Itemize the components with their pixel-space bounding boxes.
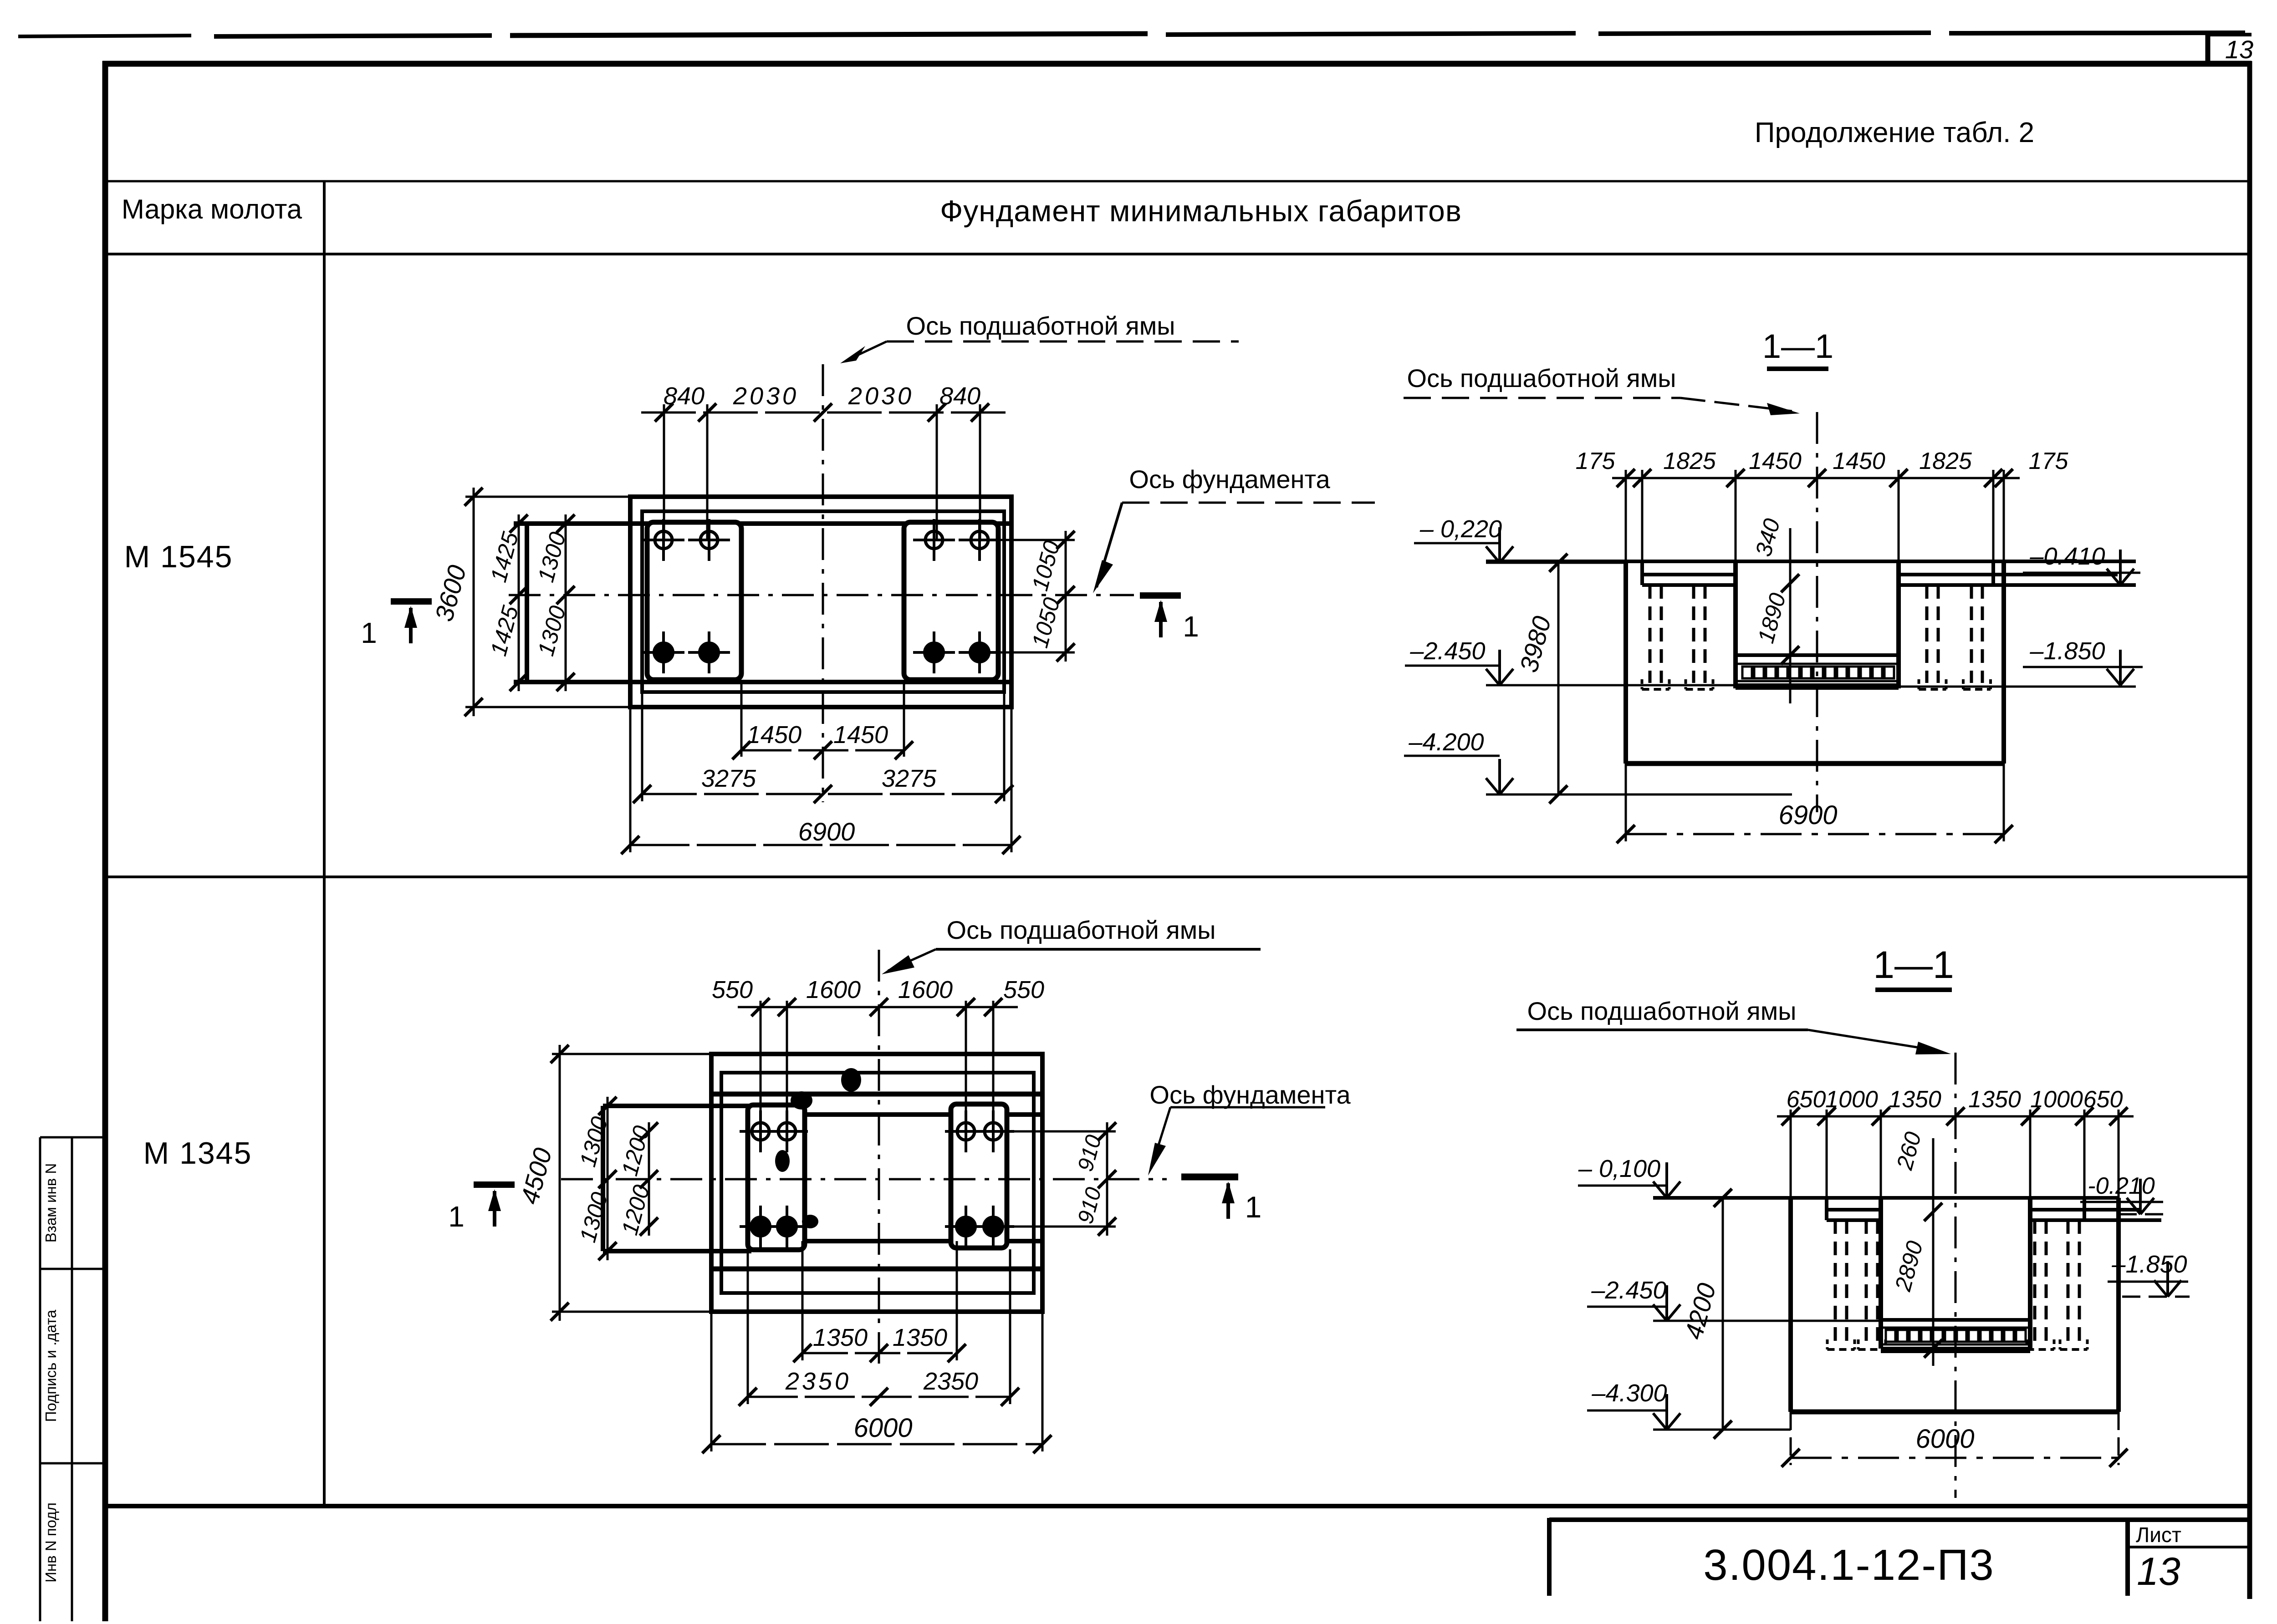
- upper plan pit top line: [514, 521, 1011, 526]
- extension lines 910 (lower plan): [993, 1131, 1116, 1227]
- upper plan inner outline: [642, 511, 1004, 692]
- svg-text:Ось подшаботной ямы: Ось подшаботной ямы: [947, 916, 1216, 944]
- pit floor joists (upper section): [1742, 667, 1894, 678]
- svg-text:–0.410: –0.410: [2029, 543, 2105, 570]
- svg-text:6900: 6900: [798, 817, 855, 846]
- bolt A4: [688, 631, 730, 673]
- svg-text:1600: 1600: [806, 976, 861, 1003]
- extension lines 4500 (lower plan): [552, 1054, 711, 1312]
- dim line 1425/1425: [510, 514, 528, 691]
- section mark 1 (upper plan left): [361, 601, 432, 649]
- svg-text:– 0,100: – 0,100: [1578, 1155, 1660, 1182]
- svg-text:1000: 1000: [2030, 1086, 2083, 1113]
- lower plan notch left edge: [601, 1106, 605, 1251]
- Лист label: [2136, 1523, 2181, 1547]
- header bottom line: [105, 253, 2249, 255]
- dim line 3275/3275: [633, 785, 1013, 803]
- row divider: [105, 876, 2249, 878]
- svg-text:1600: 1600: [898, 976, 953, 1003]
- pit floor joists (lower section): [1886, 1330, 2026, 1342]
- svg-text:1350: 1350: [893, 1324, 947, 1351]
- bolt D4: [972, 1206, 1014, 1247]
- dim text 1450 (right): [833, 721, 888, 748]
- title block left edge: [1547, 1518, 1552, 1596]
- ink blot 2: [775, 1150, 790, 1172]
- upper plan vertical axis Ось подшаботной ямы: [822, 364, 824, 802]
- pile group E (lower section): [1828, 1220, 1855, 1349]
- lower plan anchor plate left: [748, 1105, 805, 1250]
- upper plan pit bottom line: [514, 680, 1011, 684]
- upper plan anchor plate left: [647, 522, 741, 680]
- dim text 1350 (right): [893, 1324, 947, 1351]
- pile group B (upper section): [1686, 585, 1713, 689]
- dim text 2350 (right): [923, 1368, 978, 1395]
- bolt B4: [959, 631, 1001, 673]
- svg-text:Взам инв N: Взам инв N: [42, 1163, 59, 1243]
- dim text 2030 (left): [733, 382, 799, 410]
- label Ось подшаботной ямы (lower section): [1516, 997, 1951, 1054]
- dim text 3980: [1514, 613, 1557, 676]
- upper plan notch left edge: [525, 524, 529, 682]
- svg-text:Подпись и .дата: Подпись и .дата: [42, 1309, 59, 1422]
- dim text 1300 lower plan (upper): [575, 1114, 613, 1169]
- dim text 1050 (upper): [1027, 538, 1065, 593]
- pit floor lines (lower section): [1881, 1320, 2030, 1344]
- label Ось фундамента (lower plan): [1148, 1080, 1351, 1176]
- svg-text:-0.210: -0.210: [2088, 1173, 2155, 1199]
- upper plan horizontal centre line: [509, 594, 1134, 596]
- dim text 1450 (left): [747, 721, 802, 748]
- dim line 6900 (upper plan): [621, 836, 1021, 854]
- bolt D3: [945, 1206, 987, 1247]
- extension lines top (lower section): [1791, 1110, 2119, 1198]
- svg-text:13: 13: [2137, 1550, 2180, 1593]
- svg-text:1: 1: [361, 616, 377, 649]
- elevation -0.210: [2080, 1173, 2163, 1214]
- dim line 3600: [465, 488, 483, 716]
- dim text 650 (right): [2083, 1086, 2123, 1113]
- svg-text:–2.450: –2.450: [1409, 637, 1485, 665]
- svg-text:2030: 2030: [848, 382, 914, 410]
- ground line (lower section): [1653, 1196, 2119, 1200]
- doc number 3.004.1-12-П3: [1703, 1541, 1994, 1589]
- section title 1-1 (upper): [1762, 327, 1833, 369]
- dim line 4500: [551, 1045, 569, 1321]
- bolt B2: [959, 519, 1001, 561]
- bolt D2: [972, 1110, 1014, 1152]
- lower plan vertical axis: [878, 950, 880, 1364]
- dim text 2890: [1890, 1238, 1928, 1294]
- title block Лист underline: [2128, 1546, 2250, 1548]
- svg-text:2350: 2350: [785, 1368, 851, 1395]
- upper plan outer outline: [630, 497, 1011, 707]
- stamp divider 1: [40, 1268, 105, 1270]
- extension lines top bolts (upper plan): [664, 404, 980, 540]
- pile group A (upper section): [1642, 585, 1669, 689]
- bolt A2: [688, 519, 730, 561]
- dim text 1825 (left): [1663, 448, 1716, 474]
- dim line 260/2890 (lower section): [1924, 1138, 1942, 1366]
- elevation -4.300: [1587, 1380, 1791, 1430]
- svg-text:1: 1: [1183, 610, 1199, 643]
- section mark 1 (lower plan right): [1181, 1177, 1261, 1224]
- dim text 910 (lower): [1073, 1185, 1106, 1226]
- foundation outline (upper section): [1626, 561, 2004, 764]
- pile group C (upper section): [1919, 585, 1946, 689]
- svg-text:840: 840: [939, 382, 980, 410]
- svg-text:Ось фундамента: Ось фундамента: [1149, 1080, 1351, 1109]
- svg-text:1350: 1350: [813, 1324, 868, 1351]
- dim line 1200/1200 (lower plan): [640, 1122, 658, 1236]
- header Марка молота: [122, 194, 302, 224]
- dim text 650 (left): [1787, 1086, 1826, 1113]
- lower plan lower band line: [711, 1267, 1042, 1272]
- dim text 340: [1751, 516, 1785, 559]
- elevation -0.410: [2023, 543, 2140, 585]
- dim line 6900 (upper section): [1617, 825, 2013, 843]
- svg-text:Ось фундамента: Ось фундамента: [1129, 465, 1330, 494]
- svg-text:–4.200: –4.200: [1408, 728, 1484, 756]
- svg-text:3.004.1-12-П3: 3.004.1-12-П3: [1703, 1541, 1994, 1589]
- dim line 6000 (lower plan): [702, 1435, 1052, 1453]
- svg-text:М 1545: М 1545: [124, 540, 233, 574]
- dim text 1200 lower plan (lower): [617, 1182, 654, 1237]
- frame top: [102, 61, 2251, 67]
- svg-text:–4.300: –4.300: [1591, 1380, 1667, 1407]
- dim text 260: [1891, 1129, 1926, 1173]
- section title 1-1 (lower): [1873, 943, 1954, 990]
- svg-text:1450: 1450: [1833, 448, 1885, 474]
- dim text 175 (right): [2029, 448, 2069, 474]
- svg-text:1825: 1825: [1919, 448, 1972, 474]
- dim line 1450/1450: [732, 741, 913, 759]
- extension lines 1450 (upper plan): [741, 680, 904, 757]
- stamp divider 2: [40, 1462, 105, 1465]
- stamp cell Инв N подл: [42, 1502, 59, 1583]
- bolt B3: [913, 631, 955, 673]
- svg-text:175: 175: [2029, 448, 2069, 474]
- dim line 6000 (lower section): [1782, 1449, 2128, 1467]
- ledge left (upper section): [1642, 561, 1736, 585]
- dim text 1450 (right): [1833, 448, 1885, 474]
- svg-text:1450: 1450: [747, 721, 802, 748]
- elevation -2.450 (upper): [1405, 637, 1736, 685]
- dim line 4200: [1714, 1189, 1732, 1439]
- svg-text:6900: 6900: [1778, 800, 1837, 830]
- bolt C2: [766, 1110, 808, 1152]
- svg-text:Инв N подл: Инв N подл: [42, 1502, 59, 1583]
- svg-text:175: 175: [1576, 448, 1616, 474]
- svg-text:650: 650: [1787, 1086, 1826, 1113]
- dim text 1300 lower plan (lower): [575, 1189, 613, 1245]
- svg-text:1450: 1450: [1749, 448, 1802, 474]
- dim text 2350 (left): [785, 1368, 851, 1395]
- dim text 3275 (right): [882, 765, 937, 792]
- dim text 175 (left): [1576, 448, 1616, 474]
- label Ось фундамента (upper plan): [1093, 465, 1375, 593]
- dim text 3275 (left): [701, 765, 756, 792]
- dim text 1890: [1753, 590, 1791, 646]
- upper plan anchor plate right: [904, 522, 998, 680]
- stamp cell Взам инв N: [42, 1163, 59, 1243]
- table top line: [105, 180, 2249, 183]
- frame left: [102, 61, 108, 1621]
- lower plan pit top line: [748, 1112, 1042, 1117]
- pit floor lines (upper section): [1736, 655, 1899, 681]
- dim text 2030 (right): [848, 382, 914, 410]
- svg-text:6000: 6000: [853, 1413, 912, 1443]
- column divider: [323, 181, 326, 1506]
- svg-text:1450: 1450: [833, 721, 888, 748]
- dim line 650/1000/1350/1350/1000/650: [1777, 1107, 2134, 1125]
- svg-text:–2.450: –2.450: [1591, 1277, 1666, 1304]
- header Фундамент минимальных габаритов: [940, 194, 1462, 228]
- label Ось подшаботной ямы (upper plan): [840, 311, 1239, 363]
- pit walls (lower section): [1881, 1198, 2030, 1349]
- lower plan outer outline: [711, 1054, 1042, 1312]
- row label М 1345: [143, 1136, 252, 1171]
- ledge left (lower section): [1827, 1198, 1881, 1220]
- scan edge line at top: [18, 33, 2245, 36]
- dim line 1300/1300: [556, 514, 575, 691]
- label Ось подшаботной ямы (lower plan): [882, 916, 1261, 974]
- dim text 1300 (upper): [533, 529, 571, 585]
- extension lines 1050 (upper plan): [980, 540, 1075, 652]
- dim line 175/1825/1450/1450/1825/175: [1612, 469, 2020, 487]
- svg-text:Ось подшаботной ямы: Ось подшаботной ямы: [906, 311, 1175, 340]
- svg-text:1825: 1825: [1663, 448, 1716, 474]
- dim line 340/1890 (upper section): [1781, 528, 1799, 703]
- dim text 1450 (left): [1749, 448, 1802, 474]
- label Ось подшаботной ямы (upper section): [1404, 364, 1800, 415]
- extension lines top (upper section): [1626, 470, 2004, 561]
- dim text 910 (upper): [1073, 1132, 1106, 1174]
- svg-text:1—1: 1—1: [1873, 943, 1954, 986]
- dim line 550/1600/1600/550: [738, 998, 1018, 1016]
- dim line 1350/1350: [793, 1344, 966, 1362]
- dim text 1425 (upper): [485, 529, 523, 585]
- svg-text:550: 550: [712, 976, 753, 1003]
- lower plan upper band line: [711, 1092, 1042, 1097]
- ground line (upper section): [1486, 560, 2136, 563]
- svg-text:650: 650: [2083, 1086, 2123, 1113]
- title block Лист divider: [2125, 1520, 2130, 1596]
- dim line 1050/1050: [1057, 531, 1075, 662]
- dim text 1425 (lower): [485, 603, 523, 658]
- pit floor bottom (lower section): [1881, 1347, 2030, 1353]
- pile group G (lower section): [2027, 1220, 2054, 1349]
- dim text 6900 (upper section): [1778, 800, 1837, 830]
- bolt D1: [945, 1110, 987, 1152]
- axis Ось подшаботной ямы (lower section): [1955, 1053, 1957, 1498]
- dim text 1350 (right): [1968, 1086, 2021, 1113]
- dim text 840 (right): [939, 382, 980, 410]
- dim text 1600 (right): [898, 976, 953, 1003]
- svg-text:3275: 3275: [701, 765, 756, 792]
- dim line 2350/2350: [739, 1388, 1019, 1406]
- sheet 13 (title block): [2137, 1550, 2180, 1593]
- lower plan anchor plate right: [951, 1104, 1007, 1248]
- lower plan horizontal centre line: [561, 1178, 1167, 1181]
- svg-text:2350: 2350: [923, 1368, 978, 1395]
- dim text 3600: [429, 562, 472, 625]
- extension lines 3600 (upper plan): [465, 497, 630, 707]
- svg-text:1350: 1350: [1889, 1086, 1941, 1113]
- extension lines 3275 (upper plan): [642, 692, 1004, 801]
- svg-text:13: 13: [2225, 35, 2253, 64]
- bolt C3: [740, 1206, 781, 1247]
- dim text 550 (right): [1003, 976, 1044, 1003]
- row label М 1545: [124, 540, 233, 574]
- pit walls (upper section): [1736, 561, 1899, 688]
- extension lines 6000 (lower plan): [711, 1312, 1042, 1451]
- svg-text:840: 840: [664, 382, 705, 410]
- lower plan inner outline: [721, 1073, 1034, 1293]
- stamp column top cap: [40, 1136, 105, 1139]
- dim text 6000 (lower plan): [853, 1413, 912, 1443]
- pit floor bottom (upper section): [1736, 683, 1899, 690]
- svg-text:Ось подшаботной ямы: Ось подшаботной ямы: [1527, 997, 1797, 1025]
- svg-text:–1.850: –1.850: [2029, 637, 2105, 665]
- svg-text:1—1: 1—1: [1762, 327, 1833, 365]
- dim line 910/910: [1098, 1122, 1116, 1236]
- title block top line: [1549, 1517, 2251, 1522]
- elevation -2.450 (lower): [1587, 1277, 1881, 1321]
- bolt A3: [643, 631, 684, 673]
- dim text 1600 (left): [806, 976, 861, 1003]
- svg-text:Фундамент минимальных габарито: Фундамент минимальных габаритов: [940, 194, 1462, 228]
- dim text 1000 (right): [2030, 1086, 2083, 1113]
- svg-text:550: 550: [1003, 976, 1044, 1003]
- svg-text:Ось подшаботной ямы: Ось подшаботной ямы: [1407, 364, 1676, 392]
- stamp cell Подпись и дата: [42, 1309, 59, 1422]
- dim line 840/2030/2030/840: [641, 403, 1007, 422]
- svg-text:– 0,220: – 0,220: [1419, 515, 1502, 543]
- dim text 550 (left): [712, 976, 753, 1003]
- dim text 1200 lower plan (upper): [617, 1123, 654, 1178]
- extension lines 6000 (lower section): [1791, 1412, 2119, 1465]
- dim text 1300 (lower): [533, 603, 571, 658]
- svg-text:1: 1: [1245, 1190, 1262, 1224]
- extension lines 2350 (lower plan): [748, 1249, 1010, 1404]
- foundation outline (lower section): [1791, 1198, 2119, 1412]
- dim text 1825 (right): [1919, 448, 1972, 474]
- elevation -0.100: [1578, 1155, 1680, 1198]
- lower plan notch top: [603, 1104, 751, 1108]
- axis Ось подшаботной ямы (upper section): [1816, 412, 1818, 812]
- ink blot 3: [802, 1215, 818, 1228]
- stamp column verticals: [40, 1137, 72, 1621]
- extension lines 1350 (lower plan): [802, 1241, 957, 1360]
- dim text 1000 (left): [1825, 1086, 1878, 1113]
- bolt C4: [766, 1206, 808, 1247]
- pile group D (upper section): [1963, 585, 1991, 689]
- sheet number 13 (top right): [2225, 35, 2253, 64]
- svg-text:3275: 3275: [882, 765, 937, 792]
- ink blot 4: [791, 1091, 812, 1110]
- svg-text:1000: 1000: [1825, 1086, 1878, 1113]
- svg-text:–1.850: –1.850: [2111, 1251, 2187, 1278]
- svg-text:1350: 1350: [1968, 1086, 2021, 1113]
- bolt C1: [740, 1110, 781, 1152]
- elevation -0.220: [1414, 515, 1626, 563]
- svg-text:Продолжение табл. 2: Продолжение табл. 2: [1755, 117, 2034, 148]
- section mark 1 (upper plan right): [1140, 596, 1199, 643]
- sheet number box (top right): [2208, 34, 2251, 63]
- pile group H (lower section): [2060, 1220, 2088, 1349]
- dim text 6000 (lower section): [1915, 1424, 1974, 1454]
- svg-text:1: 1: [448, 1200, 465, 1233]
- elevation -4.200: [1404, 728, 1792, 794]
- dim text 6900 (upper plan): [798, 817, 855, 846]
- svg-text:2030: 2030: [733, 382, 799, 410]
- elevation -1.850 (upper): [1899, 637, 2143, 687]
- dim text 1050 (lower): [1027, 595, 1065, 650]
- bolt A1: [643, 519, 684, 561]
- dim line 3980: [1549, 554, 1567, 804]
- dim text 1350 (left): [1889, 1086, 1941, 1113]
- dim text 840 (left): [664, 382, 705, 410]
- lower plan pit bottom line: [748, 1239, 1042, 1243]
- frame right: [2247, 61, 2252, 1599]
- section mark 1 (lower plan left): [448, 1185, 515, 1233]
- bolt B1: [913, 519, 955, 561]
- dim text 1350 (left): [813, 1324, 868, 1351]
- elevation -1.850 (lower): [2108, 1251, 2190, 1297]
- dim text 4200: [1679, 1280, 1721, 1343]
- ink blot 1: [841, 1068, 861, 1092]
- dim line 1300/1300 (lower plan): [598, 1097, 617, 1260]
- extension lines 6900 (upper plan): [630, 707, 1011, 852]
- dim text 4500: [515, 1145, 557, 1207]
- note Продолжение табл.2: [1755, 117, 2034, 148]
- extension lines 6900 (upper section): [1626, 764, 2004, 841]
- svg-text:М 1345: М 1345: [143, 1136, 252, 1171]
- pile group F (lower section): [1858, 1220, 1886, 1349]
- extension lines top bolts (lower plan): [761, 1001, 993, 1131]
- table bottom line: [105, 1504, 2250, 1508]
- lower plan notch bottom: [603, 1249, 751, 1253]
- ledge right (upper section): [1899, 561, 2136, 585]
- svg-text:Марка молота: Марка молота: [122, 194, 302, 224]
- svg-text:6000: 6000: [1915, 1424, 1974, 1454]
- ledge right (lower section): [2030, 1198, 2161, 1220]
- svg-text:Лист: Лист: [2136, 1523, 2181, 1547]
